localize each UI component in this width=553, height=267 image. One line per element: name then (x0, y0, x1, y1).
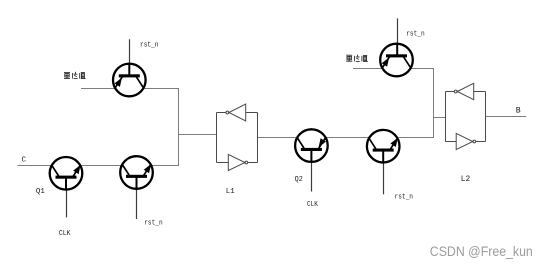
svg-text:rst_n: rst_n (395, 193, 414, 201)
svg-text:Q1: Q1 (36, 188, 46, 196)
svg-text:rst_n: rst_n (144, 220, 163, 228)
svg-text:B: B (516, 106, 521, 115)
svg-text:rst_n: rst_n (406, 30, 425, 38)
svg-text:CLK: CLK (59, 230, 71, 238)
svg-text:CLK: CLK (307, 201, 318, 209)
svg-text:Q2: Q2 (295, 176, 303, 184)
svg-text:L1: L1 (226, 188, 236, 196)
svg-text:rst_n: rst_n (140, 41, 159, 49)
svg-text:CSDN @Free_kun: CSDN @Free_kun (430, 244, 533, 260)
svg-text:C: C (22, 157, 27, 165)
svg-text:L2: L2 (461, 176, 471, 184)
